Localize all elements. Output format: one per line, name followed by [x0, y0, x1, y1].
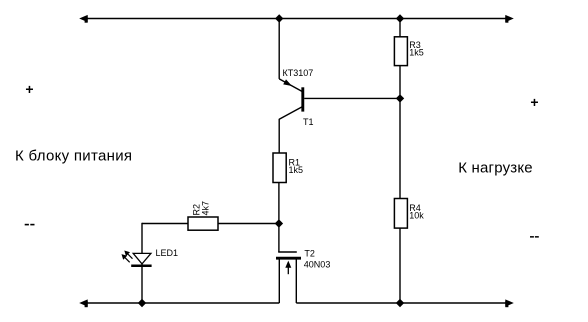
- svg-text:1k5: 1k5: [409, 48, 424, 58]
- wire R3 top: [399, 19, 401, 37]
- wire LED bottom: [141, 266, 143, 303]
- wire R1 bottom to node: [278, 183, 280, 224]
- arrow bottom-left: [79, 299, 88, 306]
- svg-text:4k7: 4k7: [200, 201, 210, 216]
- node junction top emitter: [275, 14, 283, 22]
- svg-text:T1: T1: [303, 117, 314, 127]
- wire collector to R1: [278, 119, 280, 153]
- svg-text:+: +: [25, 81, 33, 97]
- arrow top-right (to load): [505, 15, 514, 22]
- wire bottom rail left: [84, 302, 279, 304]
- svg-text:+: +: [530, 94, 538, 110]
- MOSFET T2 source leg: [278, 258, 280, 303]
- node junction base node: [396, 94, 404, 102]
- arrow bottom-right: [505, 299, 514, 306]
- MOSFET T2 gate plate: [278, 251, 297, 253]
- transistor T1 collector diagonal: [279, 107, 302, 120]
- wire emitter feed: [278, 19, 280, 79]
- node junction bottom R4: [396, 299, 404, 307]
- wire R4 bottom: [399, 228, 401, 303]
- transistor T1 emitter diagonal: [279, 79, 302, 92]
- node junction top R3: [396, 14, 404, 22]
- resistor R4 body: [394, 199, 407, 229]
- svg-text:10k: 10k: [409, 211, 424, 221]
- wire R3 bottom to base node: [399, 66, 401, 99]
- resistor R3 body: [394, 37, 407, 66]
- svg-text:КТ3107: КТ3107: [283, 68, 314, 78]
- LED1 light arrow 1: [127, 253, 133, 259]
- label minus left: [25, 224, 29, 226]
- arrow top-left (to power supply): [79, 15, 88, 22]
- wire R2 right to node: [218, 223, 279, 225]
- MOSFET T2 channel bar: [276, 257, 301, 260]
- node junction bottom LED: [138, 299, 146, 307]
- LED1 cathode bar: [131, 265, 151, 268]
- LED1 triangle: [133, 253, 151, 264]
- svg-text:К нагрузке: К нагрузке: [458, 160, 533, 177]
- transistor T1 base bar: [301, 87, 304, 111]
- wire top rail: [84, 18, 509, 20]
- MOSFET T2 gate feed: [278, 224, 280, 253]
- wire bottom rail right: [296, 302, 509, 304]
- svg-text:LED1: LED1: [156, 248, 179, 258]
- transistor T1 emitter arrow (PNP): [283, 79, 292, 86]
- wire LED top: [141, 223, 143, 265]
- MOSFET T2 body arrow: [287, 263, 289, 274]
- svg-text:40N03: 40N03: [304, 259, 331, 269]
- resistor R2 body: [188, 217, 218, 230]
- wire T1 base lead: [304, 97, 400, 99]
- resistor R1 body: [273, 153, 286, 183]
- label minus right: [530, 236, 534, 238]
- svg-text:T2: T2: [304, 249, 315, 259]
- MOSFET T2 drain leg: [295, 258, 297, 303]
- svg-text:1k5: 1k5: [289, 165, 304, 175]
- node junction gate node: [275, 219, 283, 227]
- wire R2 left to LED branch: [142, 223, 188, 225]
- svg-text:К блоку питания: К блоку питания: [15, 148, 132, 165]
- wire base node to R4: [399, 98, 401, 198]
- LED1 light arrow 2: [124, 256, 130, 262]
